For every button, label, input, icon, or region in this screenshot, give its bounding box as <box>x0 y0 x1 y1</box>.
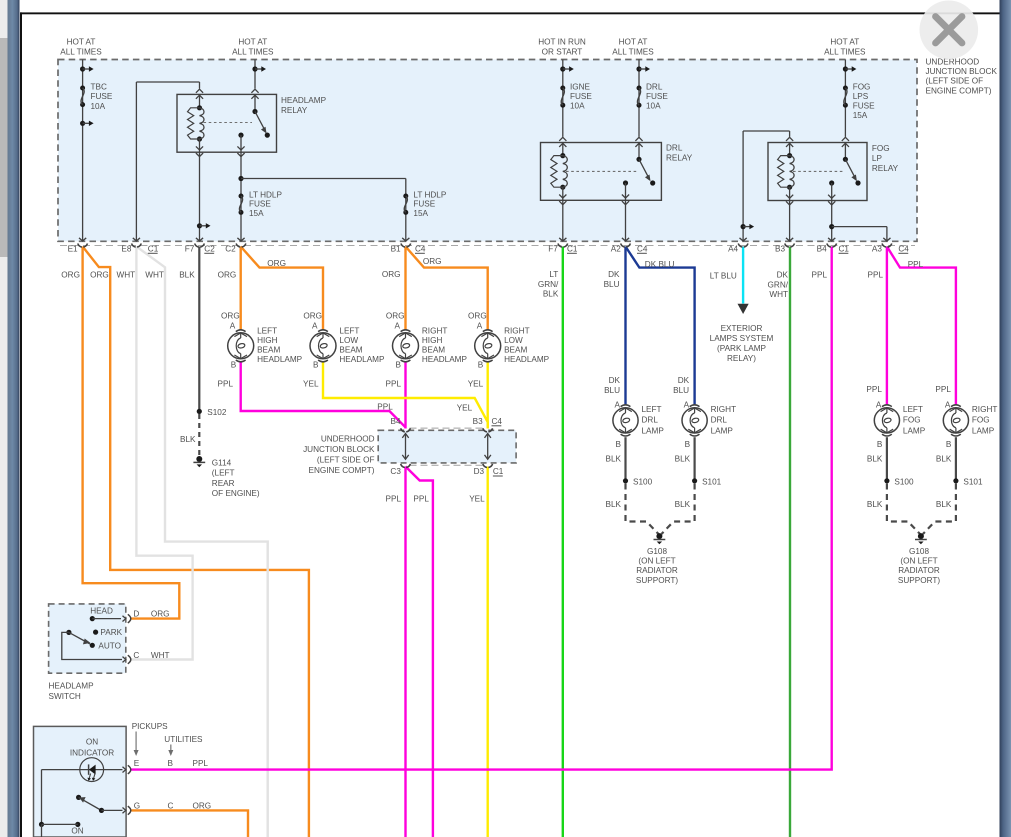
svg-text:C1: C1 <box>567 244 578 253</box>
svg-text:DRL: DRL <box>646 82 663 91</box>
svg-text:C4: C4 <box>637 244 648 253</box>
svg-text:PPL: PPL <box>868 271 884 280</box>
svg-text:S100: S100 <box>894 477 914 486</box>
svg-text:S102: S102 <box>207 408 227 417</box>
svg-text:DRL: DRL <box>666 144 683 153</box>
svg-text:C: C <box>168 801 174 810</box>
svg-text:E: E <box>134 759 140 768</box>
svg-text:E1: E1 <box>68 244 78 253</box>
svg-text:PPL: PPL <box>866 385 882 394</box>
svg-text:FUSE: FUSE <box>646 92 668 101</box>
svg-text:DK BLU: DK BLU <box>645 260 675 269</box>
svg-text:BEAM: BEAM <box>504 345 527 354</box>
svg-text:ORG: ORG <box>151 610 170 619</box>
svg-text:GRN/: GRN/ <box>538 280 559 289</box>
svg-text:ALL TIMES: ALL TIMES <box>824 48 866 57</box>
svg-text:LT HDLP: LT HDLP <box>249 190 282 199</box>
svg-text:DK: DK <box>608 270 620 279</box>
svg-text:B: B <box>685 440 691 449</box>
svg-text:15A: 15A <box>249 209 264 218</box>
svg-text:RADIATOR: RADIATOR <box>898 566 940 575</box>
svg-text:A: A <box>615 400 621 409</box>
svg-text:G108: G108 <box>647 547 667 556</box>
svg-text:B: B <box>616 440 622 449</box>
svg-text:HOT AT: HOT AT <box>67 38 96 47</box>
svg-text:(LEFT: (LEFT <box>212 469 235 478</box>
svg-text:C4: C4 <box>898 244 909 253</box>
svg-text:HEADLAMP: HEADLAMP <box>504 355 550 364</box>
svg-text:OR START: OR START <box>542 48 583 57</box>
svg-text:BLU: BLU <box>604 280 620 289</box>
svg-text:ON: ON <box>86 737 98 746</box>
svg-text:BLU: BLU <box>604 386 620 395</box>
svg-text:PPL: PPL <box>935 385 951 394</box>
svg-text:BEAM: BEAM <box>257 345 280 354</box>
svg-text:C1: C1 <box>839 244 850 253</box>
svg-text:FOG: FOG <box>903 416 921 425</box>
svg-text:LAMP: LAMP <box>711 426 734 435</box>
svg-text:JUNCTION BLOCK: JUNCTION BLOCK <box>303 445 375 454</box>
svg-text:LT BLU: LT BLU <box>710 272 737 281</box>
svg-text:RELAY: RELAY <box>666 153 693 162</box>
svg-text:BEAM: BEAM <box>422 345 445 354</box>
svg-text:(ON LEFT: (ON LEFT <box>900 557 937 566</box>
svg-text:ALL TIMES: ALL TIMES <box>60 48 102 57</box>
svg-text:15A: 15A <box>413 209 428 218</box>
svg-text:OF ENGINE): OF ENGINE) <box>212 489 260 498</box>
svg-text:B4: B4 <box>817 244 827 253</box>
svg-text:D3: D3 <box>474 467 485 476</box>
svg-text:G114: G114 <box>212 458 232 467</box>
svg-text:WHT: WHT <box>145 271 164 280</box>
svg-text:YEL: YEL <box>469 495 485 504</box>
svg-text:B3: B3 <box>775 244 785 253</box>
svg-text:FOG: FOG <box>853 82 871 91</box>
svg-text:G: G <box>134 801 140 810</box>
svg-text:C: C <box>133 651 139 660</box>
svg-text:HIGH: HIGH <box>422 336 443 345</box>
svg-text:BLK: BLK <box>936 455 952 464</box>
svg-text:RIGHT: RIGHT <box>972 405 997 414</box>
svg-text:B4: B4 <box>390 417 400 426</box>
svg-text:ORG: ORG <box>423 257 442 266</box>
svg-text:15A: 15A <box>853 111 868 120</box>
svg-text:10A: 10A <box>570 102 585 111</box>
svg-text:FUSE: FUSE <box>91 92 113 101</box>
svg-text:C1: C1 <box>148 244 159 253</box>
svg-text:S101: S101 <box>963 477 983 486</box>
svg-text:(PARK LAMP: (PARK LAMP <box>717 344 767 353</box>
svg-text:S100: S100 <box>633 477 653 486</box>
svg-text:FUSE: FUSE <box>853 102 875 111</box>
svg-text:PPL: PPL <box>193 759 209 768</box>
svg-text:FUSE: FUSE <box>570 92 592 101</box>
svg-text:BLK: BLK <box>867 455 883 464</box>
svg-text:FUSE: FUSE <box>249 200 271 209</box>
svg-text:HOT AT: HOT AT <box>619 38 648 47</box>
svg-text:DK: DK <box>609 376 621 385</box>
svg-text:SUPPORT): SUPPORT) <box>898 576 940 585</box>
svg-text:LEFT: LEFT <box>903 405 923 414</box>
svg-text:BLK: BLK <box>936 500 952 509</box>
svg-text:ORG: ORG <box>303 311 322 320</box>
svg-text:HIGH: HIGH <box>257 336 278 345</box>
svg-text:A: A <box>684 400 690 409</box>
svg-text:DRL: DRL <box>642 416 659 425</box>
svg-text:ORG: ORG <box>221 311 240 320</box>
svg-text:BLK: BLK <box>606 500 622 509</box>
svg-text:AUTO: AUTO <box>98 641 121 650</box>
svg-text:10A: 10A <box>91 102 106 111</box>
svg-text:C3: C3 <box>390 467 401 476</box>
svg-text:HEADLAMP: HEADLAMP <box>281 96 327 105</box>
svg-text:BLK: BLK <box>179 271 195 280</box>
svg-text:BLK: BLK <box>867 500 883 509</box>
svg-text:DK: DK <box>678 376 690 385</box>
svg-text:YEL: YEL <box>468 380 484 389</box>
svg-text:HEADLAMP: HEADLAMP <box>422 355 468 364</box>
svg-text:B: B <box>396 361 402 370</box>
svg-text:JUNCTION BLOCK: JUNCTION BLOCK <box>926 67 998 76</box>
svg-text:ORG: ORG <box>267 259 286 268</box>
svg-text:PPL: PPL <box>908 260 924 269</box>
svg-text:LAMP: LAMP <box>903 426 926 435</box>
svg-text:ALL TIMES: ALL TIMES <box>612 48 654 57</box>
svg-text:F7: F7 <box>185 244 195 253</box>
svg-text:UTILITIES: UTILITIES <box>164 735 203 744</box>
svg-text:DK: DK <box>777 271 789 280</box>
svg-text:PPL: PPL <box>812 271 828 280</box>
svg-text:UNDERHOOD: UNDERHOOD <box>321 434 375 443</box>
svg-text:LAMPS SYSTEM: LAMPS SYSTEM <box>710 334 774 343</box>
svg-text:LAMP: LAMP <box>972 426 995 435</box>
svg-text:LT: LT <box>549 270 558 279</box>
svg-text:RELAY: RELAY <box>281 106 308 115</box>
svg-text:ORG: ORG <box>468 311 487 320</box>
svg-text:ON: ON <box>71 827 83 836</box>
svg-text:RELAY): RELAY) <box>727 354 756 363</box>
svg-text:LOW: LOW <box>339 336 358 345</box>
svg-text:BLK: BLK <box>675 500 691 509</box>
svg-text:BLK: BLK <box>543 290 559 299</box>
svg-text:LAMP: LAMP <box>642 426 665 435</box>
svg-text:A3: A3 <box>872 244 882 253</box>
svg-text:B: B <box>877 440 883 449</box>
svg-text:BLK: BLK <box>675 455 691 464</box>
svg-text:B: B <box>231 361 237 370</box>
svg-text:SUPPORT): SUPPORT) <box>636 576 678 585</box>
svg-text:HEADLAMP: HEADLAMP <box>49 682 95 691</box>
svg-text:GRN/: GRN/ <box>768 280 789 289</box>
svg-text:ENGINE COMPT): ENGINE COMPT) <box>309 466 375 475</box>
svg-text:RIGHT: RIGHT <box>422 326 447 335</box>
svg-text:BLK: BLK <box>180 435 196 444</box>
svg-text:(LEFT SIDE OF: (LEFT SIDE OF <box>317 455 375 464</box>
svg-text:A: A <box>312 322 318 331</box>
svg-text:FOG: FOG <box>872 144 890 153</box>
svg-text:S101: S101 <box>702 477 722 486</box>
svg-text:C1: C1 <box>493 467 504 476</box>
svg-text:B: B <box>946 440 952 449</box>
svg-text:YEL: YEL <box>303 380 319 389</box>
svg-text:WHT: WHT <box>117 271 136 280</box>
svg-text:A4: A4 <box>728 244 738 253</box>
svg-text:C2: C2 <box>204 244 215 253</box>
svg-text:PICKUPS: PICKUPS <box>132 722 168 731</box>
svg-text:IGNE: IGNE <box>570 82 591 91</box>
svg-text:B: B <box>478 361 484 370</box>
svg-text:LPS: LPS <box>853 92 869 101</box>
svg-text:FOG: FOG <box>972 416 990 425</box>
svg-text:PPL: PPL <box>377 403 393 412</box>
svg-text:A: A <box>395 322 401 331</box>
svg-text:E8: E8 <box>121 244 131 253</box>
svg-text:(ON LEFT: (ON LEFT <box>638 557 675 566</box>
svg-text:LOW: LOW <box>504 336 523 345</box>
svg-text:F7: F7 <box>548 244 558 253</box>
svg-text:PARK: PARK <box>100 628 122 637</box>
svg-text:B3: B3 <box>473 417 483 426</box>
svg-text:10A: 10A <box>646 102 661 111</box>
svg-text:REAR: REAR <box>212 479 235 488</box>
svg-text:RIGHT: RIGHT <box>711 405 736 414</box>
svg-text:ORG: ORG <box>386 311 405 320</box>
svg-text:B1: B1 <box>391 244 401 253</box>
svg-text:ORG: ORG <box>193 801 212 810</box>
svg-text:A: A <box>477 322 483 331</box>
svg-text:C4: C4 <box>492 417 503 426</box>
svg-text:HOT IN RUN: HOT IN RUN <box>538 38 586 47</box>
svg-text:ORG: ORG <box>90 271 109 280</box>
svg-text:A2: A2 <box>611 244 621 253</box>
svg-text:PPL: PPL <box>386 380 402 389</box>
svg-text:LP: LP <box>872 154 883 163</box>
svg-text:WHT: WHT <box>769 290 788 299</box>
svg-text:EXTERIOR: EXTERIOR <box>721 324 763 333</box>
svg-text:HOT AT: HOT AT <box>830 38 859 47</box>
svg-text:C4: C4 <box>415 244 426 253</box>
svg-text:BLU: BLU <box>673 386 689 395</box>
svg-text:TBC: TBC <box>91 83 107 92</box>
svg-text:C2: C2 <box>225 244 236 253</box>
svg-text:B: B <box>313 361 319 370</box>
svg-text:A: A <box>230 322 236 331</box>
svg-text:HEADLAMP: HEADLAMP <box>257 355 303 364</box>
svg-text:D: D <box>133 610 139 619</box>
svg-text:G108: G108 <box>909 547 929 556</box>
svg-text:DRL: DRL <box>711 416 728 425</box>
svg-text:ORG: ORG <box>218 271 237 280</box>
svg-text:LT HDLP: LT HDLP <box>413 190 446 199</box>
svg-text:ORG: ORG <box>61 271 80 280</box>
svg-text:INDICATOR: INDICATOR <box>70 748 114 757</box>
svg-text:PPL: PPL <box>386 495 402 504</box>
svg-text:RADIATOR: RADIATOR <box>636 566 678 575</box>
svg-text:(LEFT SIDE OF: (LEFT SIDE OF <box>926 77 984 86</box>
svg-text:YEL: YEL <box>457 404 473 413</box>
svg-text:HOT AT: HOT AT <box>238 38 267 47</box>
svg-text:PPL: PPL <box>218 380 234 389</box>
svg-text:BEAM: BEAM <box>339 345 362 354</box>
svg-text:ALL TIMES: ALL TIMES <box>232 48 274 57</box>
svg-text:A: A <box>876 400 882 409</box>
svg-text:HEAD: HEAD <box>90 606 113 615</box>
svg-text:RELAY: RELAY <box>872 164 899 173</box>
svg-text:PPL: PPL <box>413 495 429 504</box>
svg-text:LEFT: LEFT <box>257 326 277 335</box>
svg-text:HEADLAMP: HEADLAMP <box>339 355 385 364</box>
svg-text:A: A <box>945 400 951 409</box>
svg-text:FUSE: FUSE <box>413 200 435 209</box>
svg-text:ORG: ORG <box>382 270 401 279</box>
svg-text:RIGHT: RIGHT <box>504 326 529 335</box>
svg-text:SWITCH: SWITCH <box>49 692 81 701</box>
svg-text:ENGINE COMPT): ENGINE COMPT) <box>926 86 992 95</box>
svg-text:LEFT: LEFT <box>339 326 359 335</box>
svg-text:BLK: BLK <box>606 455 622 464</box>
svg-text:B: B <box>168 759 174 768</box>
svg-text:LEFT: LEFT <box>642 405 662 414</box>
svg-text:WHT: WHT <box>151 651 170 660</box>
